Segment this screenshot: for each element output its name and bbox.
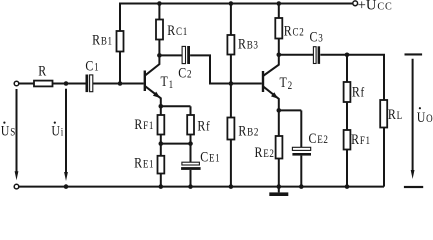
wire Rf RF1 feedback chain [346,55,348,187]
wire RB2 vertical [230,84,232,187]
resistor Rf left [187,115,194,135]
svg-text:Rf: Rf [352,83,365,100]
junction node Ui [64,81,69,86]
resistor RF1 right [344,130,351,150]
wire RE2 branch [278,110,280,186]
wire T1 emitter node horizontal [161,105,191,107]
svg-text:+UCC: +UCC [358,0,393,14]
wire RF1 RE1 branch [160,106,162,186]
wire top rail with RB1 drop [120,4,353,84]
wire CE1 lower stub [190,170,192,187]
wire CE2 lower stub [300,156,302,187]
label Rf right [352,83,365,100]
label RC1 [167,22,188,39]
wire C1 to T1 base [93,83,144,85]
wire C3 to RL corner [320,55,384,187]
label R [38,62,47,79]
junction Rf bottom left [188,141,193,146]
resistor RC2 [275,18,282,39]
junction top rail RB3 [229,1,234,6]
junction bottom RE1 [159,184,164,189]
label C3 [310,28,324,45]
capacitor CE2 [292,147,311,155]
wire T2 emitter node horizontal [279,109,302,111]
arrow Ui annotation [64,89,68,181]
arrow Us annotation [15,89,19,180]
resistor RE1 [158,156,165,174]
junction C3 out Rf [345,53,350,58]
resistor RF1 left [158,115,165,135]
wire RB3 vertical [230,4,232,84]
label RC2 [284,22,305,39]
terminal input top [14,81,19,86]
label CE1 [200,148,220,165]
junction bottom RB2 [229,184,234,189]
junction emitter T2 [277,108,282,113]
wire RC1 vertical [158,4,160,56]
resistor RB1 [117,31,124,52]
resistor RB3 [227,35,234,55]
wire Rf branch upper [190,106,192,162]
wire collector T2 node to C3 [279,54,313,56]
label Us [1,122,16,139]
junction bottom CE2 [299,184,304,189]
svg-text:Rf: Rf [197,117,210,134]
capacitor C1 [86,75,93,93]
transistor T1 [145,55,161,106]
wire input to C1 [19,83,86,85]
label Rf left [197,117,210,134]
resistor RC1 [156,20,163,40]
junction bottom RF1 right [345,184,350,189]
resistor Rf right [344,82,351,102]
transistor T2 [263,55,279,111]
resistor RL [380,100,387,128]
junction emitter T1 [159,104,164,109]
label RE1 [134,154,154,171]
resistor R [34,81,53,87]
junction collector T1 [157,53,162,58]
label CE2 [309,130,329,147]
label +Ucc [358,0,393,14]
junction RF1 bottom left [159,141,164,146]
junction bottom Ui [64,184,69,189]
junction collector T2 [277,53,282,58]
label RB2 [238,122,259,139]
svg-text:R: R [38,62,47,79]
resistor RE2 [276,136,283,159]
arrow Uo annotation with bars [404,53,423,188]
capacitor CE1 [181,162,201,170]
wire bottom rail [19,186,384,188]
junction top rail RC1 [157,1,162,6]
label T1 [161,73,174,92]
label RF1 left [134,116,154,133]
label Ui [51,122,64,139]
terminal input bottom [14,184,19,189]
label C1 [85,57,99,74]
ground [269,187,288,196]
resistor RB2 [227,118,234,140]
capacitor C2 [182,46,190,64]
label RB1 [92,31,113,48]
label RE2 [255,144,275,161]
junction base T2 [229,81,234,86]
wire CE2 upper stub [300,110,302,147]
label RF1 right [351,131,371,148]
label RB3 [238,35,259,52]
junction top rail RC2 [277,1,282,6]
label Uo [417,109,433,126]
junction bottom CE1 [188,184,193,189]
junction node RB1 base [118,81,123,86]
capacitor C3 [313,46,320,64]
label C2 [178,64,192,81]
label T2 [280,74,293,93]
wire node row between RF1 and Rf [161,143,191,145]
wire collector T1 node to C2 [159,54,181,56]
terminal +Ucc [353,1,358,6]
label RL [388,106,403,123]
junction bottom RE2 [277,184,282,189]
wire C2 to T2 base [190,55,262,83]
wire RC2 vertical [278,4,280,55]
